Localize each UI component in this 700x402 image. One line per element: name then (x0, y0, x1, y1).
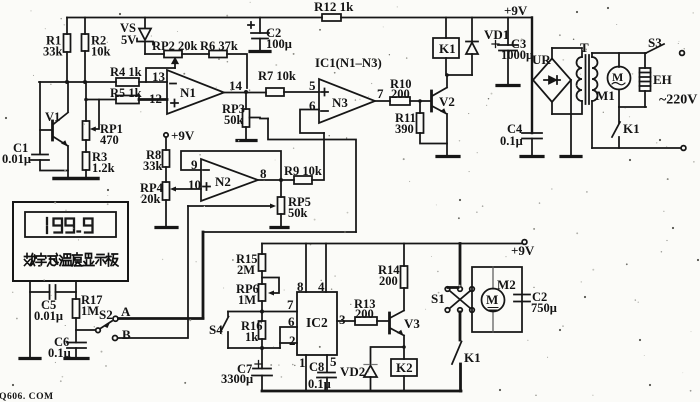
svg-text:3: 3 (339, 312, 346, 327)
wire R2 node down to R5 (85, 82, 87, 100)
motor M1 (596, 53, 631, 107)
svg-text:33k: 33k (43, 45, 63, 59)
resistor R14 200 (378, 244, 408, 289)
svg-text:750μ: 750μ (531, 301, 557, 315)
resistor R15 2M (236, 244, 266, 285)
svg-text:0.1μ: 0.1μ (500, 134, 523, 148)
resistor R5 1k (86, 86, 142, 104)
ground under left leg (20, 357, 40, 360)
ground under C4 (521, 155, 543, 158)
svg-text:M: M (486, 292, 498, 307)
wire input node y=82 (39, 81, 116, 83)
ground under RP5 (271, 226, 288, 229)
svg-text:+9V: +9V (504, 3, 528, 18)
svg-text:M2: M2 (497, 277, 516, 292)
label +9V top right (504, 3, 528, 18)
svg-text:K1: K1 (439, 41, 456, 56)
svg-text:R6 37k: R6 37k (200, 39, 238, 53)
resistor R16 1k (241, 312, 266, 349)
svg-text:10: 10 (188, 177, 201, 192)
wire IC2 pin1 (299, 355, 306, 391)
diode VD2 (340, 345, 406, 391)
wire N2 feedback pin9 to output (181, 151, 283, 182)
resistor R17 1M (73, 281, 103, 343)
switch S4 (209, 312, 229, 349)
svg-text:K2: K2 (396, 360, 413, 375)
svg-text:1M: 1M (238, 293, 256, 307)
svg-text:Q606. COM: Q606. COM (0, 391, 54, 402)
svg-text:S3: S3 (648, 35, 662, 50)
ground under C2 (250, 50, 270, 53)
wire N3 output to R10 (375, 100, 390, 102)
resistor R6 37k (200, 39, 238, 58)
wire mains bottom rail (592, 146, 686, 151)
wire bridge top to transformer secondary (551, 48, 553, 58)
wire ground rail bottom (bold) (262, 390, 461, 393)
svg-text:B: B (122, 327, 131, 342)
svg-text:VD1: VD1 (484, 27, 509, 42)
switch S1 cross DPDT (431, 244, 474, 313)
capacitor C2 750u (514, 290, 557, 315)
svg-text:100μ: 100μ (266, 37, 292, 51)
label IC1(N1-N3) (315, 56, 382, 70)
junction node dots on y=82 wire (65, 80, 88, 101)
svg-text:RP2 20k: RP2 20k (152, 39, 198, 53)
svg-text:0.01μ: 0.01μ (34, 309, 63, 323)
resistor R7 10k (258, 69, 319, 96)
wire zener node to RP2 (145, 53, 164, 55)
resistor R10 200 (390, 77, 431, 105)
svg-text:1.2k: 1.2k (92, 161, 115, 175)
svg-text:K1: K1 (623, 121, 640, 136)
svg-text:EH: EH (653, 72, 672, 87)
svg-text:V1: V1 (45, 110, 60, 124)
svg-text:50k: 50k (224, 113, 244, 127)
ground under C6 (65, 357, 88, 360)
capacitor C8 0.1u on pin5 (308, 354, 337, 391)
potentiometer RP1 470 (83, 100, 123, 148)
wire +9V top rail (67, 17, 532, 19)
capacitor C1 0.01u (2, 130, 68, 171)
switch K1 mains (612, 107, 640, 148)
wire bridge bottom to transformer secondary (551, 102, 553, 114)
svg-text:N2: N2 (215, 174, 231, 189)
wire N2 output (258, 179, 294, 181)
svg-text:R7 10k: R7 10k (258, 69, 296, 83)
relay coil K2 (391, 347, 417, 391)
svg-text:1000μ: 1000μ (501, 48, 533, 62)
svg-text:0.1μ: 0.1μ (308, 377, 331, 391)
wire R4 to N1 pin13 (139, 81, 167, 83)
heater EH (640, 53, 672, 107)
svg-text:S1: S1 (431, 291, 445, 306)
svg-text:1: 1 (299, 355, 306, 370)
zener diode VS 5V (120, 18, 153, 55)
seven-segment readout 199.9 (47, 218, 93, 233)
svg-text:13: 13 (152, 69, 166, 84)
svg-text:S4: S4 (209, 322, 223, 337)
resistor R11 390 (395, 99, 447, 143)
svg-text:UR: UR (532, 52, 551, 67)
wire bridge right to ground (570, 80, 572, 156)
svg-text:V3: V3 (404, 316, 420, 331)
motor M2 box (472, 267, 522, 332)
svg-text:7: 7 (377, 86, 384, 101)
svg-text:R4 1k: R4 1k (110, 65, 142, 79)
svg-text:IC1(N1–N3): IC1(N1–N3) (315, 56, 382, 70)
wire IC2 pin7 node (228, 297, 297, 314)
svg-text:T: T (580, 40, 589, 55)
IC IC2 (297, 292, 337, 355)
wire IC2 pin3 (337, 312, 355, 327)
capacitor C4 0.1u (500, 18, 542, 157)
svg-text:1M: 1M (81, 304, 99, 318)
op-amp N3 (309, 78, 384, 123)
svg-text:M: M (612, 70, 623, 84)
wire M1/EH junction (619, 106, 646, 108)
op-amp N2 (188, 157, 267, 201)
svg-text:~220V: ~220V (659, 93, 697, 108)
svg-text:33k: 33k (143, 159, 163, 173)
svg-text:R12 1k: R12 1k (314, 0, 354, 14)
wire 220V top rail (592, 52, 646, 54)
wire R16 bottom node (228, 346, 280, 350)
watermark Q606.COM (0, 391, 54, 402)
svg-text:M1: M1 (596, 88, 615, 103)
svg-text:R9 10k: R9 10k (284, 164, 322, 178)
svg-text:470: 470 (100, 133, 119, 147)
svg-text:V2: V2 (439, 94, 455, 109)
potentiometer RP3 50k (222, 92, 268, 140)
capacitor C5 0.01u (30, 285, 76, 323)
bridge rectifier UR (532, 52, 571, 102)
svg-text:+9V: +9V (511, 243, 535, 258)
svg-text:VD2: VD2 (340, 364, 365, 379)
potentiometer RP2 20k (146, 39, 198, 82)
svg-text:N1: N1 (180, 85, 196, 100)
svg-text:2M: 2M (237, 263, 255, 277)
wire R6 to node 14 (227, 54, 247, 88)
svg-text:K1: K1 (464, 350, 481, 365)
switch S2 with contacts A and B (76, 304, 131, 342)
display board box (13, 202, 128, 281)
wire RP2 to R6 (182, 53, 209, 55)
wire IC2 pins 6 and 2 tie (280, 314, 297, 348)
capacitor C7 3300u (221, 348, 272, 391)
wire +9V rail bottom section (262, 243, 522, 245)
terminal +9V bottom (511, 240, 535, 258)
resistor R4 1k (110, 65, 142, 86)
ground under RP4 (156, 226, 177, 229)
svg-text:200: 200 (379, 274, 398, 288)
svg-text:200: 200 (355, 307, 374, 321)
ground under RP3 (237, 139, 256, 142)
svg-text:4: 4 (318, 279, 325, 294)
potentiometer RP5 50k (188, 180, 311, 227)
svg-text:A: A (121, 304, 131, 319)
ground under C3 (497, 84, 519, 87)
svg-text:200: 200 (391, 87, 410, 101)
svg-text:C8: C8 (309, 360, 324, 374)
svg-text:50k: 50k (288, 206, 308, 220)
wire IC2 pin4 (318, 244, 326, 295)
capacitor C3 1000u (492, 18, 533, 86)
svg-text:390: 390 (395, 122, 414, 136)
capacitor C6 0.1u (48, 335, 86, 360)
op-amp N1 (149, 69, 243, 114)
diode VD1 (466, 18, 509, 76)
ground under bridge (561, 155, 581, 158)
svg-text:S2: S2 (99, 307, 113, 322)
wire sense line S2-A to pin6 net (119, 232, 357, 319)
resistor R3 1.2k (83, 140, 115, 178)
svg-text:3300μ: 3300μ (221, 372, 253, 386)
switch S3 (646, 35, 684, 55)
svg-text:5V: 5V (121, 33, 136, 47)
label (chinese) digital temperature display board (25, 253, 119, 266)
svg-text:0.01μ: 0.01μ (2, 152, 31, 166)
resistor R1 33k (43, 18, 71, 83)
transistor V1 (40, 82, 68, 178)
wire IC2 pin8 (297, 244, 306, 295)
terminal +9V bias (164, 128, 195, 143)
ground under V2 (437, 155, 459, 158)
svg-text:20k: 20k (141, 192, 161, 206)
wire R5 to N1 pin12 (bold) (139, 98, 167, 101)
svg-text:8: 8 (297, 279, 304, 294)
svg-text:5: 5 (309, 78, 316, 93)
svg-text:7: 7 (287, 297, 294, 312)
svg-text:5: 5 (330, 354, 337, 369)
capacitor C2 100u (248, 18, 292, 52)
svg-text:6: 6 (309, 98, 316, 113)
resistor R13 200 (354, 297, 389, 325)
potentiometer RP4 20k (140, 181, 201, 227)
svg-text:R5 1k: R5 1k (110, 86, 142, 100)
wire display board left leg (29, 281, 31, 358)
svg-text:2: 2 (289, 333, 296, 348)
transistor V2 (432, 75, 455, 156)
ground bar under V1 / R3 (54, 177, 98, 180)
svg-text:10k: 10k (91, 45, 111, 59)
svg-text:1k: 1k (245, 330, 258, 344)
potentiometer RP6 1M (236, 278, 279, 312)
resistor R9 10k (284, 133, 324, 184)
transistor V3 (390, 288, 421, 347)
relay coil K1 (433, 18, 472, 77)
switch K1 motor side (452, 312, 481, 391)
transformer T (552, 40, 598, 148)
svg-text:N3: N3 (332, 95, 348, 110)
resistor R12 1k (314, 0, 354, 21)
wire N3 pin6 net (268, 110, 356, 233)
svg-text:12: 12 (149, 91, 162, 106)
resistor R2 10k (82, 18, 111, 83)
wire N1 output node 14 (224, 90, 266, 94)
svg-text:6: 6 (288, 314, 295, 329)
svg-text:8: 8 (260, 166, 267, 181)
resistor R8 33k (143, 137, 170, 182)
label ~220V (659, 93, 697, 108)
wire RP5 wiper down to S2 contact B (118, 206, 188, 338)
svg-text:IC2: IC2 (306, 315, 328, 330)
svg-text:+9V: +9V (171, 128, 195, 143)
